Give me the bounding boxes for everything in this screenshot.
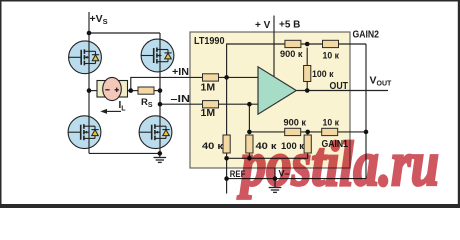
resistor 40k-2 (vertical) <box>246 135 253 153</box>
wire bottom 10k to strap <box>338 131 366 133</box>
node bottom rail 40k-1 <box>224 156 229 161</box>
resistor 40k-1 (vertical) <box>223 135 230 153</box>
svg-text:40 к: 40 к <box>202 141 223 152</box>
wire current source left lead <box>89 90 97 92</box>
svg-text:+5 В: +5 В <box>279 20 300 31</box>
svg-text:10 к: 10 к <box>323 51 340 62</box>
resistor 100k bottom (vertical) <box>304 135 311 153</box>
wire -IN line <box>160 103 203 105</box>
resistor 1M bottom <box>203 101 219 108</box>
wire left rail <box>88 33 90 153</box>
node -IN tap <box>158 102 163 107</box>
op-amp U1 <box>258 67 296 114</box>
svg-text:postila.ru: postila.ru <box>237 128 439 199</box>
node current source left on rail <box>87 88 92 93</box>
arrow current IL <box>100 100 126 114</box>
node +IN tap <box>129 88 134 93</box>
node bridge ground <box>158 151 163 156</box>
node op-amp -input <box>247 102 252 107</box>
wire 100k top upper stub <box>306 48 308 66</box>
svg-text:OUT: OUT <box>330 81 349 92</box>
node op-amp +input <box>224 75 229 80</box>
ground bridge (below right rail) <box>154 158 167 163</box>
wire 100k top lower stub <box>306 82 308 91</box>
node bottom feedback corner <box>247 130 252 135</box>
wire top feedback (node A to 900k) <box>227 44 285 77</box>
node OUT/100k <box>305 88 310 93</box>
wire +IN to op-amp <box>219 76 259 78</box>
svg-text:LT1990: LT1990 <box>194 36 225 47</box>
ground V- (below LT1990) <box>269 188 282 193</box>
svg-text:100 к: 100 к <box>312 69 334 80</box>
IC body LT1990 box <box>190 32 350 168</box>
resistor Rs <box>138 87 154 94</box>
wire REF pin line <box>226 158 228 193</box>
svg-text:GAIN2: GAIN2 <box>353 29 380 40</box>
wire top rail split <box>89 32 160 34</box>
wire 40k-1 bottom stub <box>226 153 228 158</box>
resistor 900k bottom <box>285 128 301 135</box>
resistor 10k top <box>323 40 339 47</box>
node REF/ground <box>224 176 229 181</box>
resistor 900k top <box>285 40 301 47</box>
transistor Q4 (bottom-right MOSFET) <box>139 116 172 149</box>
wire V- pin line <box>274 168 276 187</box>
wire internal bottom rail <box>227 157 308 159</box>
transistor Q3 (bottom-left MOSFET) <box>68 116 101 149</box>
transistor Q1 (top-left MOSFET) <box>68 41 101 74</box>
node V-/ground <box>273 176 278 181</box>
svg-text:–IN: –IN <box>171 94 191 105</box>
svg-text:900 к: 900 к <box>284 117 307 128</box>
wire bottom 900k to 10k <box>301 131 322 133</box>
wire +Vs stub <box>88 12 90 33</box>
node bottom divider <box>305 130 310 135</box>
wire -IN to op-amp <box>219 103 259 105</box>
wire 100k bottom stub down <box>307 153 309 158</box>
wire 900k to 10k top <box>301 43 323 45</box>
resistor 1M top <box>203 74 219 81</box>
transistor Q2 (top-right MOSFET) <box>141 39 174 72</box>
wire 40k-2 bottom stub <box>248 153 250 158</box>
svg-text:900 к: 900 к <box>280 49 303 60</box>
node top divider <box>305 42 310 47</box>
svg-text:+ V: + V <box>255 20 271 31</box>
wire 40k-1 riser node A down <box>226 77 228 135</box>
wire ground net bottom <box>227 178 366 180</box>
svg-text:1M: 1M <box>201 82 216 94</box>
wire -input node to bottom 900k <box>249 104 284 132</box>
wire +V supply <box>273 16 275 77</box>
wire current source right lead <box>128 90 139 92</box>
wire 10k top to GAIN2 <box>339 43 367 45</box>
wire OUT <box>296 90 388 92</box>
wire ground stub bridge <box>159 153 161 157</box>
resistor 10k bottom <box>322 128 338 135</box>
node Rs right on rail <box>158 88 163 93</box>
node +Vs junction <box>87 31 92 36</box>
wire +IN tap riser <box>131 77 203 90</box>
svg-text:10 к: 10 к <box>323 117 340 128</box>
svg-text:1M: 1M <box>201 107 216 119</box>
svg-text:+IN: +IN <box>172 67 189 78</box>
wire 100k bottom stub up <box>307 132 309 135</box>
resistor 100k top (vertical) <box>304 66 311 82</box>
wire bottom bridge <box>89 152 160 154</box>
wire Rs right lead <box>154 90 160 92</box>
wire right rail <box>159 33 161 153</box>
node bottom rail 40k-2 <box>247 156 252 161</box>
wire GAIN2/GAIN1 strap <box>365 44 367 179</box>
node GAIN1 strap <box>364 130 369 135</box>
current source I (bridge excitation) <box>97 77 128 100</box>
